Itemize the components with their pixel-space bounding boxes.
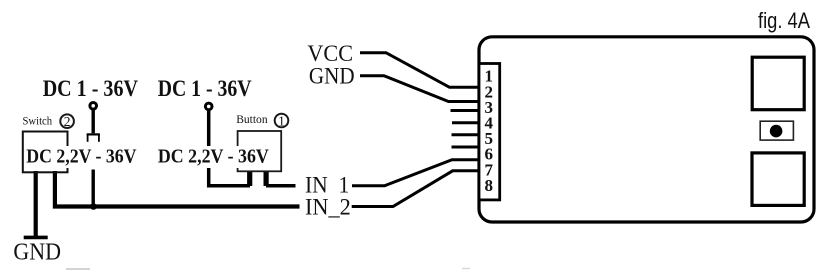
svg-text:DC 2,2V - 36V: DC 2,2V - 36V bbox=[26, 145, 137, 167]
svg-text:DC 1 - 36V: DC 1 - 36V bbox=[158, 76, 252, 102]
svg-text:2: 2 bbox=[64, 114, 71, 129]
svg-text:1: 1 bbox=[278, 113, 285, 128]
svg-text:DC 1 - 36V: DC 1 - 36V bbox=[43, 76, 138, 102]
svg-text:IN_2: IN_2 bbox=[305, 195, 351, 220]
svg-text:Switch: Switch bbox=[23, 113, 53, 127]
svg-text:Button: Button bbox=[236, 112, 267, 126]
svg-text:fig. 4A: fig. 4A bbox=[758, 8, 810, 33]
svg-text:DC 2,2V - 36V: DC 2,2V - 36V bbox=[158, 146, 269, 168]
svg-text:GND: GND bbox=[13, 240, 61, 266]
svg-text:GND: GND bbox=[309, 63, 355, 89]
svg-text:8: 8 bbox=[484, 176, 493, 195]
